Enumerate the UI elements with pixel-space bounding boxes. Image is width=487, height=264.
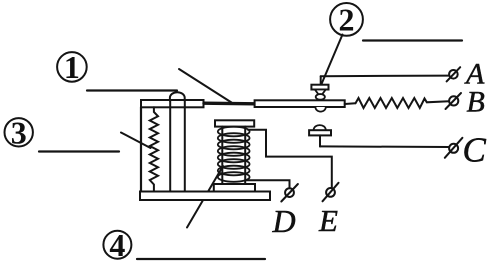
coil turn 1 xyxy=(218,127,250,137)
stand left wall xyxy=(140,107,142,192)
terminal B symbol xyxy=(446,93,462,109)
stand top bar xyxy=(141,100,204,107)
lower moving contact dome xyxy=(315,107,325,112)
lower fixed contact bar xyxy=(309,130,331,135)
pointer line from label 1 to armature strip xyxy=(179,69,232,103)
coil core left side xyxy=(221,127,223,184)
svg-text:3: 3 xyxy=(11,114,27,150)
armature flex strip (black) xyxy=(204,101,256,105)
terminal E symbol xyxy=(323,183,339,202)
base plate xyxy=(140,192,270,201)
blank line for label 2 xyxy=(363,39,462,41)
coil turn 3 xyxy=(218,140,250,150)
armature bar xyxy=(255,100,345,107)
blank line for label 1 xyxy=(87,89,177,91)
svg-text:E: E xyxy=(318,203,338,238)
coil turn 6 xyxy=(218,159,250,169)
pointer line from label 2 to contact xyxy=(322,35,343,85)
wire coil to terminal D xyxy=(246,180,290,188)
armature end link wire xyxy=(345,102,356,105)
blank line for label 4 xyxy=(137,258,265,260)
svg-text:C: C xyxy=(463,131,487,170)
upper contact tip trapezoid xyxy=(315,90,326,95)
terminal A symbol xyxy=(447,67,461,81)
label circle 1 xyxy=(57,49,87,85)
pointer line from label 4 to coil xyxy=(187,166,223,228)
coil top cap xyxy=(215,120,254,126)
label circle 4 xyxy=(103,227,131,263)
svg-text:1: 1 xyxy=(64,49,80,85)
svg-text:A: A xyxy=(464,58,485,91)
spring S xyxy=(150,107,158,191)
upper contact T-bar xyxy=(311,85,328,90)
coil turn 2 xyxy=(218,133,250,143)
resistor R xyxy=(356,98,449,108)
coil turn 5 xyxy=(218,153,250,163)
pivot dome xyxy=(170,92,185,101)
coil turn 7 xyxy=(218,166,250,176)
upper moving contact bead xyxy=(316,94,325,100)
wire to terminal C xyxy=(320,145,449,148)
terminal D symbol xyxy=(281,184,298,202)
svg-text:2: 2 xyxy=(339,2,355,38)
coil bottom flange xyxy=(214,184,255,192)
coil turn 8 xyxy=(218,172,250,182)
pointer line from label 3 to spring xyxy=(121,133,151,149)
coil core right side xyxy=(244,127,246,184)
coil turn 4 xyxy=(218,146,250,156)
wire to terminal A xyxy=(321,75,449,78)
svg-text:4: 4 xyxy=(109,227,125,263)
blank line for label 3 xyxy=(39,150,119,152)
stand leg left xyxy=(169,101,171,192)
terminal C symbol xyxy=(445,138,463,158)
stand leg right xyxy=(184,101,186,192)
lower fixed contact dome xyxy=(314,125,326,130)
label circle 2 xyxy=(330,2,363,38)
svg-text:D: D xyxy=(272,203,296,239)
upper contact stem xyxy=(320,76,322,85)
wire coil to terminal E xyxy=(248,130,332,188)
lower contact stem xyxy=(319,135,321,146)
label circle 3 xyxy=(5,114,33,150)
